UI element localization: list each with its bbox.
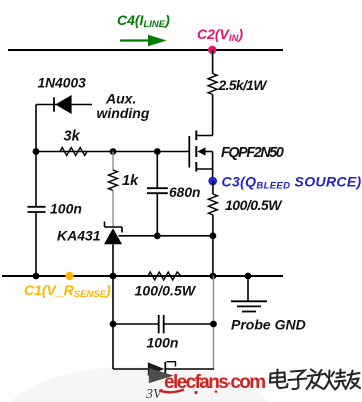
wire 1k top lead (112, 152, 114, 171)
resistor 2.5k/1W (208, 74, 217, 95)
watermark chinese characters (270, 370, 360, 390)
wire 100n loop (113, 323, 158, 325)
channel segments (195, 131, 197, 141)
wire gate rail (36, 151, 189, 153)
svg-text:1k: 1k (122, 173, 139, 189)
wire bottom loop (113, 368, 148, 370)
wire 680n top lead (156, 152, 158, 189)
wire left vertical (aux branch) (35, 105, 37, 207)
wire 680n bottom lead (156, 193, 158, 236)
svg-text:1N4003: 1N4003 (38, 76, 87, 91)
ground Probe GND (231, 276, 267, 312)
svg-text:3k: 3k (64, 129, 81, 145)
svg-text:elecfans·com: elecfans·com (164, 372, 265, 393)
wire 1k bottom lead (112, 190, 114, 227)
resistor 1k (109, 170, 118, 190)
diode 1N4003 (36, 95, 92, 114)
wire 2.5k bottom lead to drain (212, 94, 214, 135)
char zi (289, 371, 307, 390)
svg-text:100n: 100n (50, 201, 82, 217)
wire KA431 reference (119, 235, 213, 237)
char dian (277, 370, 288, 389)
node C1 dot (65, 272, 73, 280)
logo elecfans swoosh (159, 390, 184, 393)
wire top rail (8, 49, 283, 51)
logo elecfans triangle (149, 368, 174, 383)
capacitor 100n (left) (28, 207, 46, 212)
wire 100ohm top lead (212, 181, 214, 194)
diode 3V (bottom) (148, 362, 176, 376)
svg-text:Probe GND: Probe GND (231, 317, 306, 333)
char you (346, 371, 361, 390)
wire bottom rail (2, 275, 283, 277)
node C4 arrow (green current arrow) (120, 35, 167, 47)
resistor 3k (60, 148, 87, 156)
wire 100ohm bottom lead (212, 215, 214, 276)
node dot ref/right (210, 232, 217, 239)
svg-text:2.5k/1W: 2.5k/1W (218, 77, 269, 93)
source vertical (212, 152, 214, 182)
svg-text:680n: 680n (169, 185, 200, 200)
capacitor 680n (147, 188, 168, 193)
shunt regulator KA431 (104, 222, 122, 245)
capacitor 100n (bottom) (159, 315, 164, 333)
svg-text:KA431: KA431 (57, 228, 101, 244)
wire KA431 anode to rail (112, 244, 114, 276)
svg-text:100/0.5W: 100/0.5W (225, 197, 283, 213)
node C3 dot (208, 177, 217, 186)
svg-text:winding: winding (97, 105, 150, 121)
node junction dots on gate rail (33, 148, 40, 155)
gate bar (188, 136, 190, 168)
node dots on 100n loop (110, 321, 117, 328)
transistor Q1 FQPF2N50 (189, 131, 212, 182)
resistor 100/0.5W (horizontal) (148, 272, 181, 280)
wire right branch down (gray) (213, 276, 215, 369)
logo drips (194, 391, 197, 394)
svg-text:100/0.5W: 100/0.5W (135, 283, 197, 299)
char shao (325, 371, 335, 389)
node junction dots on bottom rail (33, 273, 40, 280)
char fa (307, 370, 325, 390)
body arrow (205, 151, 213, 153)
resistor 100/0.5W (vertical) (208, 194, 217, 215)
wire 2.5k top lead (212, 50, 214, 74)
node C2 dot (208, 46, 216, 54)
svg-text:C3(QBLEED SOURCE): C3(QBLEED SOURCE) (222, 174, 362, 192)
node dot ref/680n (154, 232, 161, 239)
watermark ellipse (5, 366, 275, 402)
source lead (196, 168, 212, 170)
svg-text:100n: 100n (147, 335, 179, 351)
wire left branch down (112, 276, 114, 369)
svg-text:3V: 3V (145, 387, 163, 402)
wire below left cap (35, 212, 37, 276)
drain lead (196, 135, 212, 137)
svg-text:FQPF2N50: FQPF2N50 (221, 145, 284, 161)
